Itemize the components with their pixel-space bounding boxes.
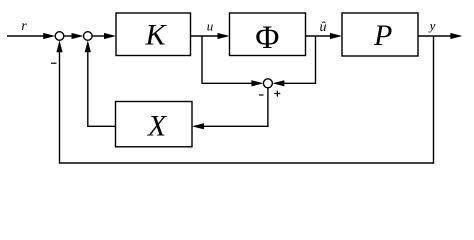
wire outer feedback y to summer1 — [60, 36, 434, 163]
sign minus at summer3 — [259, 94, 264, 96]
arrowhead up into summer2 — [85, 40, 91, 52]
svg-text:Φ: Φ — [255, 20, 279, 56]
arrowhead into summer2 — [72, 33, 84, 39]
arrowhead into summer1 — [43, 33, 55, 39]
arrowhead into K — [104, 33, 116, 39]
arrowhead output y — [450, 33, 462, 39]
wire summer2 to K — [92, 35, 107, 37]
svg-text:K: K — [144, 19, 167, 52]
arrowhead into summer3 left — [251, 80, 263, 86]
block X — [116, 102, 193, 147]
wire tap u down — [202, 36, 255, 83]
wire summer1 to summer2 — [64, 35, 74, 37]
arrowhead into X — [192, 123, 204, 129]
svg-text:u: u — [207, 19, 214, 34]
wire summer3 output to X — [201, 88, 268, 126]
wire X output up to summer2 — [88, 49, 116, 126]
block K — [116, 13, 191, 56]
arrowhead up into summer1 — [56, 40, 62, 52]
summer S2 — [84, 32, 93, 41]
arrowhead into P — [330, 33, 342, 39]
wire input r — [7, 35, 46, 37]
wire K to Phi (u) — [191, 35, 221, 37]
sign minus at summer1 — [51, 62, 57, 64]
block Phi — [230, 13, 306, 56]
svg-text:X: X — [147, 110, 168, 143]
summer S1 — [55, 32, 64, 41]
svg-text:r: r — [21, 19, 27, 34]
svg-text:û: û — [320, 20, 327, 35]
wire tap u-hat down — [281, 36, 315, 83]
arrowhead into summer3 right — [272, 80, 284, 86]
wire Phi to P (u-hat) — [306, 35, 334, 37]
sign plus at summer3 — [274, 91, 280, 97]
wire P output y — [418, 35, 453, 37]
svg-text:P: P — [373, 19, 392, 52]
summer S3 — [263, 79, 272, 88]
arrowhead into Phi — [218, 33, 230, 39]
svg-text:y: y — [428, 18, 436, 33]
block P — [342, 13, 418, 56]
